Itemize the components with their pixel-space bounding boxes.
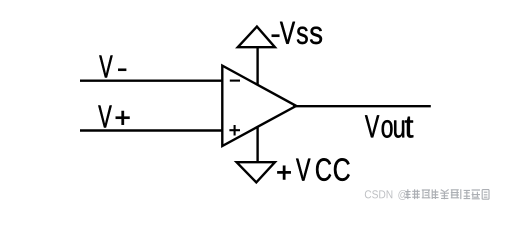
label +VCC (positive supply) (277, 158, 349, 181)
label -Vss (negative supply) (272, 22, 322, 44)
label V- (inverting input) (99, 55, 126, 77)
label V+ (non-inverting input) (98, 105, 129, 127)
watermark: username glyphs (405, 189, 489, 199)
wire: Vout output (293, 105, 431, 107)
watermark: CSDN @ (365, 190, 407, 200)
power symbol -Vss triangle (238, 27, 275, 48)
label Vout (output) (365, 115, 413, 137)
wire: negative supply stub (256, 47, 258, 85)
wire: V+ input (80, 129, 223, 131)
wire: V- input (80, 79, 223, 81)
op-amp U1 triangle body (222, 66, 296, 146)
op-amp non-inverting input marker (+) (229, 125, 240, 136)
power symbol +VCC triangle (237, 162, 275, 182)
op-amp inverting input marker (-) (230, 80, 240, 82)
wire: positive supply stub (256, 127, 258, 162)
